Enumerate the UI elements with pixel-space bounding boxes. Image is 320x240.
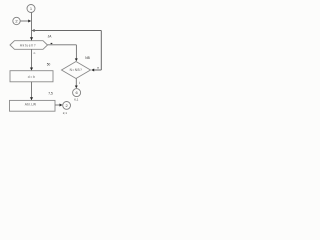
process rect 1 <box>10 71 53 82</box>
wire into diamond right vertex <box>94 69 102 71</box>
svg-text:2,1: 2,1 <box>63 111 68 115</box>
arrowhead into connector circle 3 <box>75 86 78 89</box>
svg-text:N=NB?: N=NB? <box>70 68 83 72</box>
svg-text:6,1: 6,1 <box>74 98 79 102</box>
wire diamond bottom exit <box>75 79 77 86</box>
connector circle 3 (below diamond) <box>73 89 81 97</box>
arrowhead into diamond right vertex <box>91 69 94 72</box>
arrowhead into hexagon top <box>30 37 33 40</box>
junction arrowhead at branch (31.5,30.5) <box>32 29 35 32</box>
wire hexagon bottom to rect 1 <box>31 49 33 70</box>
svg-text:NB: NB <box>85 56 89 60</box>
arrowhead into rect 1 top <box>30 68 33 71</box>
svg-text:d = b: d = b <box>28 75 35 79</box>
wire main vertical from circle 1 to hexagon <box>31 13 33 41</box>
svg-text:Abl.LW: Abl.LW <box>25 102 37 106</box>
wire corner down into diamond top <box>75 45 77 59</box>
arrowhead into diamond top vertex <box>75 58 78 61</box>
wire rect 2 right exit to connector <box>55 104 60 106</box>
diamond decision N=NB? <box>62 62 91 79</box>
arrowhead into connector circle 4 <box>60 104 63 107</box>
connector circle 2 (left entry) <box>13 17 20 24</box>
wire from circle 2 into main vertical <box>20 20 28 22</box>
wire rect 1 to rect 2 <box>31 82 33 100</box>
tiny mark on hexagon exit wire <box>51 43 53 44</box>
connector circle 1 (top entry) <box>27 5 35 13</box>
wire hexagon right exit to corner <box>48 44 77 46</box>
connector circle 4 (bottom left) <box>63 102 71 110</box>
svg-text:50: 50 <box>47 63 51 67</box>
process rect 2 <box>10 100 56 111</box>
arrowhead into rect 2 top <box>30 97 33 100</box>
arrowhead into main vertical at (31,21) <box>28 20 31 23</box>
svg-text:Aktuell?: Aktuell? <box>20 43 36 47</box>
svg-text:7,5: 7,5 <box>48 92 53 96</box>
wire right vertical x=101.3 <box>100 31 102 71</box>
wire top feedback horizontal y=30.5 <box>32 30 102 32</box>
hexagon decision (preparation) shape <box>10 41 48 50</box>
